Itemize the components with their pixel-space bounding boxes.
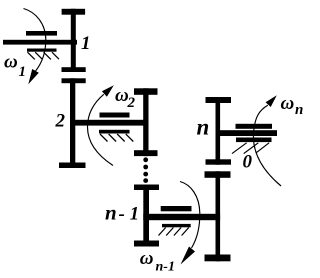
shaft n-1 [143, 214, 220, 220]
gear wheel (n-1)a: vertical line [143, 185, 149, 247]
shaft 1 [3, 40, 77, 45]
gear wheel 2a: vertical line [70, 78, 75, 168]
rotation arc omega n-1 around shaft n-1 [180, 182, 200, 249]
svg-text:0: 0 [243, 152, 253, 173]
continuation dots [143, 157, 148, 183]
gear/bearing bar above shaft n-1 [161, 206, 192, 211]
arrowhead omega2 [102, 85, 114, 97]
gear wheel (n-1)b: vertical line [216, 171, 221, 261]
rotation arc omega2 around shaft 2 [88, 94, 114, 165]
gear wheel (n-1)b: top cap [205, 171, 231, 178]
hatching of support under shaft 2 [100, 134, 133, 142]
arrowhead omega n [266, 95, 277, 107]
svg-text:n: n [197, 115, 210, 140]
gear/bearing bar above shaft 2 [100, 113, 130, 118]
gear/bearing bar above shaft n [236, 124, 273, 129]
fixed support bar under shaft 2 [99, 130, 130, 134]
svg-text:ω: ω [140, 248, 154, 269]
shaft n [216, 130, 278, 136]
gear wheel 2b: top cap [134, 88, 158, 95]
gear wheel 1: bottom cap [62, 67, 86, 72]
fixed support bar under shaft n [236, 138, 272, 143]
svg-text:2: 2 [127, 95, 136, 111]
gear wheel 2b: vertical line [143, 88, 148, 156]
gear wheel (n-1)b: bottom cap [205, 255, 231, 262]
arrowhead omega1 [28, 69, 39, 84]
fixed support bar under shaft 1 [27, 49, 57, 52]
shaft 2 [70, 120, 148, 126]
hatching of support under shaft n [232, 143, 269, 154]
rotation arc omega1 around shaft 1 [24, 9, 46, 72]
gear wheel 2a: top cap [62, 78, 86, 83]
svg-text:ω: ω [281, 93, 295, 114]
svg-text:2: 2 [55, 111, 66, 132]
hatching of support under shaft n-1 [159, 228, 189, 236]
svg-text:n: n [295, 102, 303, 118]
gear wheel n: top cap [206, 97, 232, 103]
gear wheel 2b: bottom cap [134, 150, 158, 156]
svg-text:ω: ω [4, 52, 18, 73]
gear wheel n: vertical line [216, 97, 221, 165]
svg-text:n-1: n-1 [156, 259, 175, 274]
svg-text:n: n [105, 200, 117, 224]
fixed support bar under shaft n-1 [162, 224, 191, 227]
gear wheel 1: vertical line [71, 9, 76, 72]
gear wheel n: bottom cap [206, 159, 232, 164]
arrowhead omega n-1 [181, 247, 196, 265]
gear/bearing bar above shaft 1 [26, 31, 57, 36]
gear wheel 1: top cap [62, 9, 86, 15]
svg-text:1: 1 [81, 33, 91, 54]
rotation arc omega n around shaft n [253, 105, 281, 186]
gear wheel (n-1)a: top cap [134, 185, 159, 191]
svg-text:- 1: - 1 [119, 203, 140, 224]
gear wheel 2a: bottom cap [59, 163, 86, 169]
svg-text:1: 1 [19, 64, 27, 80]
hatching of support under shaft 1 [28, 52, 60, 59]
gear wheel (n-1)a: bottom cap [134, 241, 159, 247]
